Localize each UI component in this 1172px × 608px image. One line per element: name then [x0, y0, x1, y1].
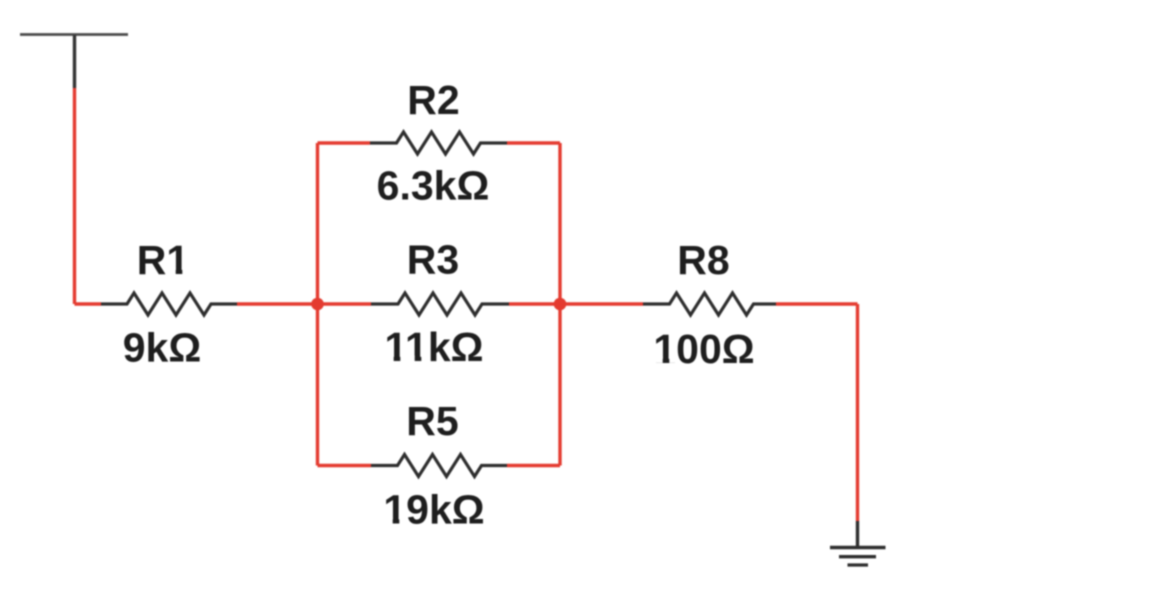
svg-text:6.3kΩ: 6.3kΩ — [377, 163, 490, 209]
digit-1 serif masks (match Arial-style "1" of target) — [167, 269, 676, 524]
wire: terminal down to R1 row — [73, 88, 76, 304]
wire: R2 right stub — [507, 141, 560, 144]
wire: left parallel rail — [316, 143, 319, 466]
svg-text:R5: R5 — [406, 398, 458, 444]
svg-text:R3: R3 — [407, 237, 459, 283]
svg-text:19kΩ: 19kΩ — [383, 487, 484, 533]
node B junction dot (right) — [554, 298, 567, 311]
wire: R3 right stub — [509, 302, 560, 305]
svg-text:9kΩ: 9kΩ — [123, 325, 201, 371]
wire: right drop to ground — [856, 304, 859, 521]
wire: R1 right lead to left node — [237, 302, 318, 305]
svg-text:100Ω: 100Ω — [653, 326, 754, 372]
wire: R2 left stub — [318, 141, 371, 144]
resistor R2 — [370, 132, 507, 154]
wire: corner to R1 left lead — [75, 302, 102, 305]
node A junction dot (left) — [311, 298, 324, 311]
wire: right parallel rail — [558, 143, 561, 466]
svg-text:R8: R8 — [677, 237, 729, 283]
terminal stem (black) — [73, 35, 76, 88]
svg-text:R1: R1 — [137, 237, 189, 283]
resistor R3 — [371, 293, 509, 315]
wire: R5 left stub — [318, 464, 372, 467]
svg-text:11kΩ: 11kΩ — [384, 324, 483, 370]
wire: R5 right stub — [507, 464, 560, 467]
wire: R8 right lead to right corner — [776, 302, 858, 305]
wire: R3 left stub — [318, 302, 372, 305]
resistor R1 — [101, 293, 237, 315]
power terminal bar top-left — [20, 33, 128, 36]
svg-text:R2: R2 — [407, 77, 459, 123]
ground — [830, 521, 886, 565]
resistor R5 — [371, 455, 507, 477]
resistor R8 — [643, 293, 776, 315]
wire: right node to R8 left lead — [560, 302, 643, 305]
